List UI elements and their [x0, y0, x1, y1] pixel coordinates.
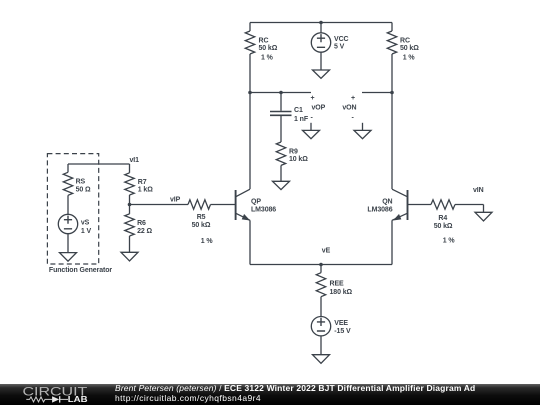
- svg-text:VEE: VEE: [334, 320, 348, 327]
- svg-text:1 %: 1 %: [261, 55, 274, 62]
- svg-text:vE: vE: [322, 247, 331, 254]
- wire base QP: [211, 204, 236, 206]
- junction node vOP / QP collector: [248, 91, 252, 95]
- function generator box: [47, 154, 98, 264]
- svg-text:QP: QP: [251, 198, 261, 205]
- svg-text:VCC: VCC: [334, 36, 349, 43]
- wire vE bottom rail: [250, 264, 392, 266]
- svg-text:50 kΩ: 50 kΩ: [400, 45, 419, 52]
- wire base QN: [408, 204, 432, 206]
- transistor QP: [236, 93, 250, 265]
- svg-text:1 kΩ: 1 kΩ: [138, 186, 153, 193]
- svg-text:LM3086: LM3086: [367, 207, 392, 214]
- svg-text:22 Ω: 22 Ω: [137, 228, 152, 235]
- svg-text:R4: R4: [438, 215, 447, 222]
- wire top rail: [250, 22, 392, 24]
- wire right RC bottom lead: [391, 54, 393, 93]
- wire R4 to vIN: [455, 204, 484, 206]
- svg-text:vON: vON: [342, 105, 356, 112]
- ground (vOP probe): [303, 123, 320, 139]
- svg-text:50 kΩ: 50 kΩ: [192, 222, 211, 229]
- svg-text:50 kΩ: 50 kΩ: [434, 223, 453, 230]
- ground (VEE): [313, 355, 330, 364]
- svg-text:QN: QN: [382, 198, 392, 205]
- svg-text:Function Generator: Function Generator: [49, 267, 113, 274]
- wire left RC bottom lead: [249, 54, 251, 93]
- footer bar: [0, 384, 540, 405]
- svg-text:+: +: [351, 95, 355, 102]
- wire R7 top lead: [129, 164, 131, 173]
- svg-text:50 kΩ: 50 kΩ: [259, 45, 278, 52]
- svg-text:vIP: vIP: [170, 196, 181, 203]
- junction node vIP: [128, 203, 132, 207]
- wire RS top lead: [67, 164, 69, 172]
- transistor QN: [392, 93, 408, 265]
- ground (vS): [60, 253, 77, 262]
- svg-text:R5: R5: [197, 214, 206, 221]
- svg-text:1 %: 1 %: [403, 55, 416, 62]
- ground (vON probe): [354, 123, 371, 139]
- wire vI1: [68, 163, 130, 165]
- svg-text:-15 V: -15 V: [334, 328, 351, 335]
- junction node vON / QN collector: [390, 91, 394, 95]
- resistor RC (left): [245, 31, 254, 54]
- ground (R9): [273, 181, 290, 189]
- junction node vE / REE: [319, 263, 323, 267]
- svg-text:1 %: 1 %: [201, 238, 214, 245]
- resistor RC (right): [387, 31, 396, 54]
- junction node C1: [279, 91, 283, 95]
- resistor R4: [431, 200, 455, 209]
- resistor R5: [188, 200, 211, 209]
- wire node vON right: [362, 92, 392, 94]
- footer text: [115, 384, 475, 403]
- resistor R9: [276, 142, 285, 165]
- wire left RC top lead: [249, 23, 251, 32]
- ground (R6): [121, 252, 138, 261]
- svg-text:1 V: 1 V: [81, 228, 92, 235]
- svg-text:R6: R6: [137, 220, 146, 227]
- ground (vIN): [475, 205, 492, 221]
- svg-text:C1: C1: [294, 107, 303, 114]
- svg-text:-: -: [352, 115, 355, 122]
- voltage source vS: [58, 195, 77, 252]
- wire right RC top lead: [391, 23, 393, 32]
- svg-text:vS: vS: [81, 220, 90, 227]
- svg-text:180 kΩ: 180 kΩ: [330, 289, 353, 296]
- wire R6 bottom lead: [129, 236, 131, 252]
- svg-text:LAB: LAB: [68, 394, 88, 404]
- wire R7 bottom lead: [129, 195, 131, 214]
- svg-text:1 %: 1 %: [443, 237, 456, 244]
- svg-text:REE: REE: [330, 280, 345, 287]
- svg-text:RC: RC: [259, 37, 269, 44]
- svg-text:vI1: vI1: [130, 157, 140, 164]
- capacitor C1: [270, 93, 292, 143]
- junction node top rail / VCC: [319, 21, 323, 25]
- wire node vOP left: [250, 92, 311, 94]
- voltage source VEE: [311, 297, 330, 355]
- CircuitLab logo: [0, 384, 100, 405]
- svg-text:50 Ω: 50 Ω: [76, 187, 91, 194]
- svg-text:LM3086: LM3086: [251, 207, 276, 214]
- svg-text:5 V: 5 V: [334, 44, 345, 51]
- svg-text:R9: R9: [289, 149, 298, 156]
- svg-text:R7: R7: [138, 179, 147, 186]
- voltage source VCC: [311, 23, 330, 71]
- ground (VCC): [313, 70, 330, 78]
- svg-text:RS: RS: [76, 179, 86, 186]
- svg-text:vOP: vOP: [312, 105, 326, 112]
- wire R9 bottom lead: [280, 165, 282, 181]
- wire REE top lead: [320, 265, 322, 273]
- resistor REE: [316, 273, 325, 297]
- svg-text:+: +: [311, 95, 315, 102]
- svg-text:vIN: vIN: [473, 187, 484, 194]
- svg-text:RC: RC: [400, 37, 410, 44]
- svg-text:1 nF: 1 nF: [294, 116, 309, 123]
- wire vIP: [130, 204, 189, 206]
- svg-text:10 kΩ: 10 kΩ: [289, 156, 308, 163]
- resistor R6: [125, 214, 134, 236]
- svg-text:-: -: [311, 115, 314, 122]
- resistor R7: [125, 173, 134, 195]
- resistor RS: [63, 172, 72, 195]
